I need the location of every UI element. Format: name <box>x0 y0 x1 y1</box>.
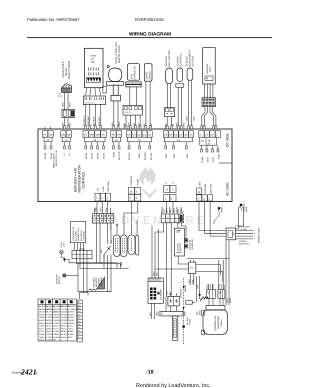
svg-text:J11: J11 <box>201 140 205 143</box>
switch label <box>100 250 103 253</box>
G1 area rotated labels <box>53 150 59 168</box>
svg-text:HEATER 120V: HEATER 120V <box>77 227 80 241</box>
wires S3 down to dispenser <box>152 223 186 297</box>
svg-text:MOTOR: MOTOR <box>58 276 61 284</box>
svg-text:RD/BK: RD/BK <box>46 322 53 325</box>
svg-text:BR/YL: BR/YL <box>61 325 66 328</box>
legend side strip <box>78 300 83 342</box>
svg-text:WIRE: WIRE <box>245 206 248 212</box>
svg-text:BK/YL: BK/YL <box>46 325 51 328</box>
run capacitor connector <box>123 105 142 115</box>
wires long left cluster vertical <box>97 223 129 292</box>
svg-text:36 HB: 36 HB <box>97 152 100 159</box>
fan motor M1 body <box>107 65 124 101</box>
solid state relay SSR1 body <box>62 84 72 93</box>
power cord rotated label <box>258 227 261 243</box>
svg-text:GM: GM <box>96 134 100 137</box>
watermark flame logo <box>140 167 158 199</box>
lamp icon <box>60 250 65 257</box>
long wires to compressor area <box>197 240 230 305</box>
svg-text:36 LB: 36 LB <box>103 153 106 159</box>
svg-text:GND: GND <box>68 336 73 339</box>
svg-text:+ X: + X <box>63 153 66 157</box>
svg-text:TWST: TWST <box>46 339 52 342</box>
svg-text:BLK: BLK <box>193 116 196 121</box>
S3 top labels <box>163 207 184 212</box>
wires into capsules from B2 <box>111 201 138 236</box>
svg-text:YL/WH: YL/WH <box>61 316 68 319</box>
svg-text:OR/YL: OR/YL <box>46 327 52 330</box>
UI block part numbers text <box>91 55 97 64</box>
svg-text:TN/WH: TN/WH <box>39 316 46 319</box>
wires B1 down to strip S1 <box>95 201 111 213</box>
svg-text:SC: SC <box>208 143 212 146</box>
overload zigzag <box>200 297 209 301</box>
svg-text:YEL/WHT: YEL/WHT <box>83 116 86 126</box>
svg-text:ICEMAKER 4W: ICEMAKER 4W <box>72 227 75 241</box>
svg-text:120V: 120V <box>63 242 66 247</box>
ice maker plug box <box>148 278 163 303</box>
svg-text:NEUTRAL: NEUTRAL <box>107 181 110 192</box>
start device U2 <box>144 64 152 81</box>
svg-text:RED: RED <box>69 102 72 107</box>
svg-text:A AMP: A AMP <box>136 178 139 185</box>
svg-text:DC SIDE: DC SIDE <box>226 133 230 147</box>
bottom connector B1 (J8 low/neutral) <box>95 193 111 201</box>
wire labels right of heater <box>195 310 201 315</box>
SSR wire labels <box>62 102 72 107</box>
svg-text:(LINE): (LINE) <box>241 228 247 231</box>
bottom connector B4 (J1 line/neutral) <box>197 188 213 201</box>
ice maker text box <box>71 222 86 243</box>
svg-text:DC RD+: DC RD+ <box>128 151 131 160</box>
defrost heater bar <box>159 311 185 316</box>
svg-text:DC MTR: DC MTR <box>118 151 121 160</box>
svg-text:CHIME W: CHIME W <box>130 175 133 186</box>
sensor thermistor RT3 <box>187 68 193 80</box>
svg-text:GY/BU: GY/BU <box>46 333 53 336</box>
svg-text:GRY: GRY <box>118 121 121 126</box>
svg-text:-18: -18 <box>146 370 154 376</box>
svg-text:WIRING DIAGRAM: WIRING DIAGRAM <box>129 32 171 38</box>
svg-text:DEVICE: DEVICE <box>149 71 152 80</box>
svg-text:(NEUTRAL): (NEUTRAL) <box>239 243 250 246</box>
fan wire labels <box>111 121 121 126</box>
svg-text:AUGER: AUGER <box>177 243 180 251</box>
svg-text:GND: GND <box>218 154 221 159</box>
svg-text:VT/BU: VT/BU <box>46 336 52 339</box>
svg-text:GY/RD: GY/RD <box>61 319 68 322</box>
svg-text:BLU/WHT: BLU/WHT <box>93 115 96 126</box>
svg-text:GN/RD: GN/RD <box>53 319 60 322</box>
svg-text:Publication No: 5995726667: Publication No: 5995726667 <box>27 17 80 22</box>
wire color legend table <box>38 299 76 341</box>
inner wire stubs below top connectors <box>45 142 218 149</box>
svg-text:TN/BU: TN/BU <box>39 336 45 339</box>
svg-text:MOTOR 12VDC: MOTOR 12VDC <box>118 45 121 63</box>
svg-text:SW: SW <box>100 250 103 253</box>
svg-text:CAB: CAB <box>196 284 199 289</box>
svg-text:BLU: BLU <box>111 121 114 126</box>
svg-text:BK/BU: BK/BU <box>61 330 67 333</box>
svg-text:BLK: BLK <box>186 116 189 121</box>
connector strip S2 <box>72 249 92 259</box>
G7 pin labels <box>201 154 221 163</box>
svg-text:VT/RD: VT/RD <box>61 322 67 325</box>
svg-text:FILL TUBE: FILL TUBE <box>75 231 78 241</box>
svg-text:MTR: MTR <box>207 157 210 162</box>
svg-text:WHT: WHT <box>166 290 169 295</box>
compressor wires <box>209 298 223 305</box>
sensor thermistor RT2 <box>176 68 184 87</box>
relay K1 <box>189 260 196 276</box>
svg-text:VT/YL: VT/YL <box>39 330 44 333</box>
svg-text:DC RD+: DC RD+ <box>144 151 147 160</box>
svg-text:ORG/WHT: ORG/WHT <box>87 115 90 126</box>
defrost capsule DH3 <box>128 235 135 255</box>
svg-text:4 3 2 1: 4 3 2 1 <box>125 111 132 114</box>
damper connector (hatched) <box>202 98 216 107</box>
svg-text:GY/YL: GY/YL <box>39 327 45 330</box>
svg-text:+ X: + X <box>68 153 71 157</box>
svg-text:BK/RD: BK/RD <box>68 316 74 319</box>
power cord labels <box>239 225 250 245</box>
G6 pin labels <box>165 153 189 158</box>
legend table link wire <box>80 293 89 300</box>
svg-text:RESISTOR 4.7K: RESISTOR 4.7K <box>55 150 58 166</box>
svg-text:GM: GM <box>90 134 94 137</box>
svg-text:PK/YL: PK/YL <box>53 327 58 330</box>
run capacitor label <box>131 66 137 80</box>
svg-text:LEADVENTURE: LEADVENTURE <box>91 215 208 227</box>
svg-text:NEUTRAL: NEUTRAL <box>100 276 103 286</box>
svg-text:GN/BU: GN/BU <box>39 333 46 336</box>
svg-text:36 HB: 36 HB <box>85 152 88 159</box>
legend rows text <box>39 305 79 342</box>
svg-text:BR/WH: BR/WH <box>68 311 75 314</box>
twisted pigtail T2 <box>240 204 243 207</box>
svg-text:TN/YL: TN/YL <box>68 327 73 330</box>
svg-text:LOW SIDE: LOW SIDE <box>82 231 85 241</box>
board connector J5 (group G5) <box>127 131 153 142</box>
B3 pin labels <box>165 182 174 184</box>
pigtail label <box>56 274 62 284</box>
svg-text:SEN: SEN <box>186 153 189 158</box>
svg-text:SYSTEM): SYSTEM) <box>191 56 194 67</box>
board divider ac/dc <box>219 162 232 164</box>
UI block dark pin header <box>87 78 101 83</box>
svg-text:CM: CM <box>49 134 53 137</box>
svg-text:C: C <box>172 189 174 192</box>
RT1 connector wires <box>167 117 172 129</box>
svg-text:PK/RD: PK/RD <box>39 322 45 325</box>
svg-text:BLK: BLK <box>163 208 166 212</box>
svg-text:TN/RD: TN/RD <box>53 322 59 325</box>
RT1 wires <box>168 84 171 108</box>
svg-text:115VAC: 115VAC <box>220 319 223 327</box>
svg-text:RD/WH: RD/WH <box>68 313 75 316</box>
lamp label <box>60 241 66 248</box>
svg-text:WHT: WHT <box>209 283 212 288</box>
run capacitor wires <box>130 87 137 105</box>
svg-text:GY/WH: GY/WH <box>46 313 53 316</box>
run capacitor connector wires <box>126 115 140 129</box>
defrost labels <box>180 288 192 325</box>
svg-text:MTR: MTR <box>212 157 215 162</box>
svg-text:CAPACITOR: CAPACITOR <box>134 66 137 80</box>
svg-text:RUN: RUN <box>220 284 223 289</box>
svg-text:GRN: GRN <box>182 122 185 127</box>
svg-text:GRN: GRN <box>172 208 175 213</box>
relay bottom labels <box>188 279 194 284</box>
board connector J9 (group G2) <box>61 131 72 142</box>
svg-text:RED: RED <box>212 284 215 289</box>
svg-text:PNK: PNK <box>191 279 194 284</box>
svg-text:COMPRESSOR: COMPRESSOR <box>214 315 217 331</box>
run capacitor C1 <box>126 64 141 87</box>
svg-text:MTR: MTR <box>209 67 212 72</box>
damper harness pants <box>202 107 216 129</box>
defrost capsule DH1 <box>114 235 121 257</box>
svg-text:val: val <box>34 372 38 375</box>
junction dot lamp <box>63 258 65 260</box>
power cord lines right <box>236 231 256 239</box>
svg-text:WH/YL: WH/YL <box>46 330 52 333</box>
compressor body <box>201 310 227 335</box>
ice maker plug below stubs <box>152 303 155 319</box>
svg-text:BU/YL: BU/YL <box>53 325 58 328</box>
svg-text:BR/BU: BR/BU <box>68 330 74 333</box>
svg-text:FB: FB <box>112 134 115 137</box>
svg-text:GN/YL: GN/YL <box>68 325 74 328</box>
svg-text:BR/RD: BR/RD <box>46 319 53 322</box>
B1 pin labels <box>97 181 111 192</box>
damper wires to connector <box>205 84 213 98</box>
UI harness wire labels <box>83 115 101 126</box>
svg-text:W/INVERTER: W/INVERTER <box>217 315 220 329</box>
S1 top labels <box>94 210 108 212</box>
refrigerator control board outline <box>38 129 232 202</box>
svg-text:YL: YL <box>78 336 80 339</box>
connector strip S3 <box>161 211 184 223</box>
svg-text:OLP: OLP <box>206 284 209 289</box>
svg-text:FM: FM <box>117 134 120 137</box>
RT3 wires <box>188 80 191 129</box>
svg-text:OR/RD: OR/RD <box>68 319 75 322</box>
svg-text:LINE: LINE <box>199 181 202 186</box>
control board rotated title EMF2500 REFRIGERATOR CONTROL <box>74 165 86 193</box>
svg-text:POWER CORD: POWER CORD <box>258 227 261 243</box>
svg-text:NEUTRAL: NEUTRAL <box>210 183 213 194</box>
G3 pin labels <box>85 152 106 159</box>
board connector J2 (group G1) <box>42 127 53 142</box>
svg-text:VT/WH: VT/WH <box>46 316 53 319</box>
wires from ice box to S2 <box>75 243 84 251</box>
sensor thermistor RT2 label <box>176 53 182 66</box>
damper label <box>206 63 212 74</box>
wires from T2 down to plug <box>235 207 244 230</box>
G4 pin labels <box>112 151 121 160</box>
svg-text:WHT: WHT <box>156 311 159 316</box>
capsule group label <box>120 263 123 267</box>
svg-text:DEFROST: DEFROST <box>180 288 183 298</box>
svg-text:MOTOR: MOTOR <box>179 243 182 251</box>
svg-text:BLK: BLK <box>149 312 152 316</box>
sensor thermistor RT1 <box>166 68 173 84</box>
svg-text:ORG: ORG <box>188 279 191 284</box>
svg-text:RED: RED <box>180 208 183 213</box>
bottom connector B2 (chime) <box>129 188 141 202</box>
wires B3 down to strip S3 <box>162 201 181 213</box>
SSR connector J7 <box>62 110 75 118</box>
svg-text:GN/WH: GN/WH <box>39 313 46 316</box>
svg-text:PK/WH: PK/WH <box>61 313 68 316</box>
defrost heater wires <box>166 293 177 311</box>
start device label <box>146 71 152 80</box>
power inlet box P1 <box>226 228 235 240</box>
olp connector 1 <box>207 290 216 299</box>
header rule <box>27 37 272 38</box>
fan wires down <box>114 101 118 130</box>
wire entry ticks on board top edge <box>64 126 217 129</box>
capsule DH4 slim <box>135 236 138 256</box>
ice maker plug label <box>160 288 163 300</box>
fresh food fan label <box>115 42 121 64</box>
svg-text:WH/BU: WH/BU <box>53 336 60 339</box>
twisted pigtail T1 <box>218 207 221 210</box>
svg-text:PK/BU: PK/BU <box>61 333 67 336</box>
svg-text:LINE: LINE <box>226 298 229 303</box>
legend header marks <box>41 300 73 303</box>
svg-text:SHLD: SHLD <box>39 339 45 342</box>
svg-text:A1B1: A1B1 <box>91 55 97 58</box>
dispenser board <box>174 228 187 256</box>
svg-text:GROUND: GROUND <box>204 183 207 193</box>
RT2 wires <box>178 87 181 129</box>
UI block pin rows <box>88 68 98 76</box>
dispenser board label <box>177 239 195 251</box>
svg-text:GY GRAY: GY GRAY <box>68 305 77 308</box>
wires from B4 down <box>199 201 226 236</box>
UI harness wires down <box>86 104 101 129</box>
svg-text:BK/WH: BK/WH <box>53 311 60 314</box>
svg-text:GND: GND <box>112 152 115 157</box>
svg-text:RVRF3361SS8: RVRF3361SS8 <box>135 17 164 22</box>
svg-text:OR/BU: OR/BU <box>53 333 60 336</box>
start device wires <box>146 81 150 129</box>
svg-text:NEUT: NEUT <box>229 297 232 303</box>
dashed sensor wire <box>183 278 185 345</box>
svg-text:WHT: WHT <box>198 310 201 315</box>
defrost thermostat piece <box>186 301 195 305</box>
board connector J11 (group G7) <box>199 131 221 146</box>
svg-text:PTC: PTC <box>218 284 221 289</box>
B2 pin labels <box>130 175 139 186</box>
svg-text:(CONTROL): (CONTROL) <box>179 53 182 66</box>
ptc connector 2 <box>218 290 225 299</box>
svg-text:WH/RD: WH/RD <box>68 322 75 325</box>
B1 wire labels <box>94 206 108 211</box>
svg-text:BU/RD: BU/RD <box>39 319 46 322</box>
svg-text:BLK: BLK <box>195 311 198 315</box>
overload dot and label <box>199 294 201 296</box>
board connector J3 (group G3) <box>83 131 106 142</box>
svg-text:TSTAT: TSTAT <box>189 318 192 325</box>
svg-text:SOLENOID: SOLENOID <box>191 239 194 250</box>
svg-text:BLK: BLK <box>223 284 226 288</box>
sensor thermistor RT3 label <box>185 50 194 67</box>
G1 pin labels <box>44 152 53 159</box>
defrost heater element <box>172 316 177 340</box>
sensor thermistor RT1 label <box>165 50 171 67</box>
RT1 connector <box>165 108 175 117</box>
svg-text:GB: GB <box>62 134 66 137</box>
svg-text:ORG: ORG <box>62 102 65 107</box>
G5 pin labels <box>128 151 153 160</box>
svg-text:CB: CB <box>67 134 71 137</box>
defrost capsule DH2 <box>121 235 128 257</box>
main UI connector block (display board) <box>84 48 103 87</box>
svg-text:(DELI PAN BIN): (DELI PAN BIN) <box>168 50 171 67</box>
solid state relay label <box>62 61 71 79</box>
board connector J6 (group G4) <box>111 131 122 142</box>
svg-text:VT VIOLET: VT VIOLET <box>68 308 78 311</box>
svg-text:BLU: BLU <box>169 208 172 212</box>
B4 pin labels <box>199 181 213 193</box>
compressor label <box>214 315 223 331</box>
svg-text:CONTROL: CONTROL <box>82 171 86 188</box>
bottom connector B3 <box>164 186 176 202</box>
svg-text:ICE MAKER: ICE MAKER <box>160 288 163 300</box>
G2 pin labels <box>63 153 71 157</box>
wires S2 down <box>77 259 112 293</box>
svg-text:RED/WHT: RED/WHT <box>98 115 101 126</box>
svg-text:ORG: ORG <box>153 271 156 276</box>
board connector J4 (group G6) <box>163 127 193 142</box>
svg-text:RD/YL: RD/YL <box>61 327 67 330</box>
svg-text:SENSE: SENSE <box>184 285 187 292</box>
svg-text:AC SIDE: AC SIDE <box>226 182 230 196</box>
svg-text:WINE SYSTEM: WINE SYSTEM <box>68 61 71 79</box>
door switch S3 <box>104 240 111 258</box>
UI harness connector <box>83 96 105 105</box>
svg-text:YL/BK: YL/BK <box>53 330 59 333</box>
horizontal wire runs to relay and power <box>155 259 229 286</box>
svg-text:P/N 242044: P/N 242044 <box>80 230 83 241</box>
svg-text:OR/WH: OR/WH <box>53 313 60 316</box>
svg-text:BU/WH: BU/WH <box>61 311 68 314</box>
svg-text:SEN: SEN <box>165 153 168 158</box>
twisted pair pigtail left <box>62 274 66 278</box>
damper motor DM1 <box>203 48 216 84</box>
svg-text:YL/BU: YL/BU <box>61 336 67 339</box>
connector strip S1 <box>93 213 114 223</box>
svg-text:1Q1: 1Q1 <box>91 61 96 64</box>
svg-text:BLK: BLK <box>156 272 159 276</box>
UI harness trapezoid <box>86 88 101 96</box>
svg-text:DC RD-: DC RD- <box>150 152 153 160</box>
SSR connector wires to board <box>65 118 69 130</box>
bottom area wire labels row <box>153 271 188 295</box>
svg-text:TWIST: TWIST <box>221 206 224 213</box>
compressor terminal bar <box>206 305 225 309</box>
svg-text:YL/RD: YL/RD <box>39 325 45 328</box>
svg-text:36 HB: 36 HB <box>201 156 204 163</box>
heater coil (hatched) <box>88 277 104 290</box>
svg-text:36 LB: 36 LB <box>91 153 94 159</box>
svg-text:36 HB: 36 HB <box>44 152 47 159</box>
svg-text:WH/BK: WH/BK <box>53 316 60 319</box>
